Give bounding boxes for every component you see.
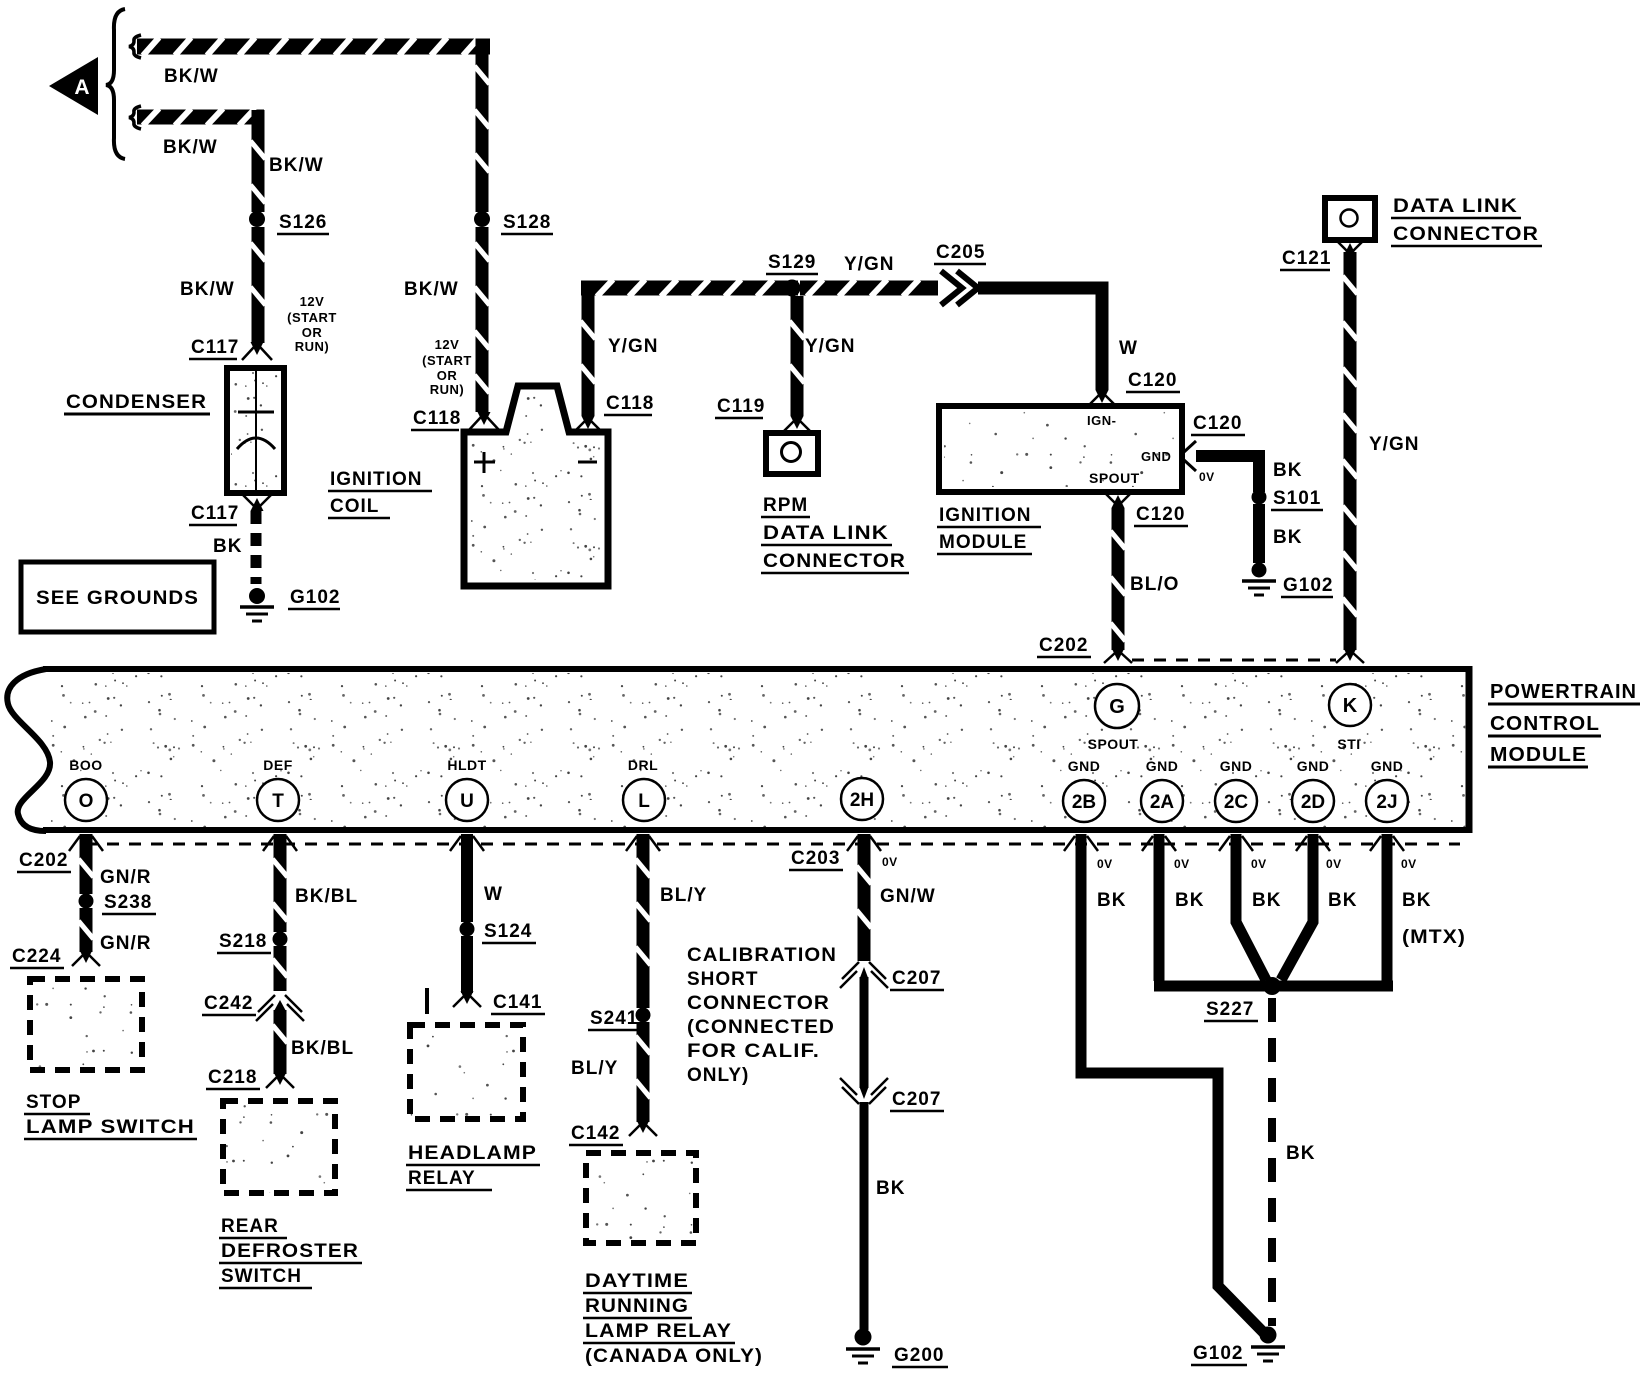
- svg-text:ONLY): ONLY): [687, 1065, 749, 1086]
- connector chevron at PCM pin 2D exit: [1296, 836, 1330, 851]
- connector C121: [1280, 240, 1364, 270]
- wire BL/Y pin L to S241: [636, 834, 708, 1008]
- powertrain control module (PCM) band: [7, 666, 1640, 833]
- svg-text:SEE GROUNDS: SEE GROUNDS: [36, 588, 199, 609]
- connector chevron at PCM pin O exit: [69, 836, 103, 851]
- wire BK dashed S227 to G102: [1272, 998, 1315, 1326]
- connector C224: [10, 946, 100, 968]
- svg-text:DAYTIME: DAYTIME: [585, 1271, 689, 1292]
- svg-text:CALIBRATION: CALIBRATION: [687, 945, 837, 966]
- svg-text:OR: OR: [302, 325, 323, 340]
- svg-text:DEFROSTER: DEFROSTER: [221, 1241, 359, 1262]
- svg-text:IGNITION: IGNITION: [330, 469, 422, 490]
- svg-text:BK/BL: BK/BL: [295, 886, 358, 907]
- svg-text:W: W: [1119, 338, 1138, 359]
- svg-text:BK: BK: [1286, 1143, 1315, 1164]
- svg-text:0V: 0V: [1174, 857, 1190, 871]
- connector C205 (inline arrow): [934, 242, 986, 305]
- svg-text:GN/R: GN/R: [100, 867, 152, 888]
- svg-text:C207: C207: [892, 968, 941, 989]
- svg-text:HLDT: HLDT: [447, 757, 486, 773]
- svg-text:C118: C118: [413, 408, 461, 429]
- connector C207 (upper): [840, 962, 944, 990]
- dashed connector line below PCM (C202/C203): [85, 843, 1460, 846]
- svg-text:GN/W: GN/W: [880, 886, 936, 907]
- stop lamp switch: [24, 979, 197, 1139]
- svg-text:COIL: COIL: [330, 496, 379, 517]
- label 0V BK (2A): [1174, 857, 1204, 911]
- svg-text:STOP: STOP: [26, 1092, 81, 1113]
- wire GN/R pin O to S238: [79, 834, 152, 894]
- svg-text:A: A: [74, 76, 89, 99]
- PCM pin L DRL: [623, 757, 665, 821]
- svg-text:LAMP RELAY: LAMP RELAY: [585, 1321, 732, 1342]
- daytime running lamp relay: [583, 1153, 763, 1367]
- svg-text:DATA LINK: DATA LINK: [1393, 196, 1518, 217]
- svg-text:DEF: DEF: [263, 757, 293, 773]
- svg-text:2C: 2C: [1224, 792, 1249, 813]
- connector C119: [715, 396, 812, 433]
- svg-text:POWERTRAIN: POWERTRAIN: [1490, 681, 1637, 703]
- svg-text:GND: GND: [1068, 758, 1101, 774]
- PCM pin 2H: [841, 778, 883, 820]
- note box SEE GROUNDS: [21, 562, 214, 632]
- svg-text:BK: BK: [213, 536, 242, 557]
- connector chevron at PCM pin 2A exit: [1142, 836, 1176, 851]
- connector chevron at PCM pin 2B exit: [1064, 836, 1098, 851]
- svg-text:(MTX): (MTX): [1402, 927, 1466, 948]
- svg-text:BK/W: BK/W: [163, 137, 218, 158]
- svg-text:GND: GND: [1371, 758, 1404, 774]
- marker arrow A: [49, 57, 98, 115]
- svg-text:C117: C117: [191, 337, 239, 358]
- connector chevron at PCM pin T exit: [263, 836, 297, 851]
- splice S218: [217, 931, 288, 953]
- svg-text:BK: BK: [1273, 527, 1302, 548]
- svg-text:Y/GN: Y/GN: [805, 336, 855, 357]
- svg-text:(CONNECTED: (CONNECTED: [687, 1017, 835, 1038]
- svg-text:S126: S126: [279, 212, 327, 233]
- rear defroster switch: [219, 1101, 362, 1288]
- svg-text:C120: C120: [1193, 413, 1242, 434]
- svg-text:GND: GND: [1141, 449, 1171, 464]
- svg-text:Y/GN: Y/GN: [844, 254, 894, 275]
- svg-text:G: G: [1109, 696, 1125, 718]
- wire BK/BL S218 to C242: [273, 946, 288, 991]
- connector chevron at PCM pin L exit: [626, 836, 660, 851]
- wire GN/R S238 to C224: [79, 908, 152, 954]
- connector chevron at PCM pin 2H exit: [847, 836, 881, 851]
- connector C120 (IGN- pin): [1087, 370, 1180, 407]
- svg-text:(CANADA ONLY): (CANADA ONLY): [585, 1346, 763, 1367]
- svg-text:W: W: [484, 884, 503, 905]
- svg-text:C205: C205: [936, 242, 985, 263]
- svg-text:BL/O: BL/O: [1130, 574, 1179, 595]
- ignition module U1: [937, 406, 1182, 554]
- svg-text:O: O: [79, 791, 94, 812]
- connector C120 (GND pin): [1184, 413, 1245, 484]
- svg-text:S218: S218: [219, 931, 267, 952]
- wire BK ground bus at S227: [1154, 981, 1393, 992]
- svg-text:BK/W: BK/W: [404, 279, 459, 300]
- wire BK pin 2C to S227: [1236, 834, 1266, 980]
- connector chevron at PCM pin U exit: [450, 836, 484, 851]
- svg-text:BK: BK: [1097, 890, 1126, 911]
- wire BK/BL C242 to C218: [273, 1010, 355, 1074]
- svg-text:BK: BK: [876, 1178, 905, 1199]
- svg-text:C117: C117: [191, 503, 239, 524]
- connector C118 (coil negative): [573, 393, 654, 433]
- svg-text:S129: S129: [768, 252, 816, 273]
- svg-text:SPOUT: SPOUT: [1089, 470, 1140, 486]
- splice S129: [766, 252, 818, 297]
- label 0V BK (2D): [1326, 857, 1357, 911]
- connector C117 (condenser bottom): [189, 494, 272, 525]
- wire BK dashed to G102: [213, 511, 256, 584]
- svg-text:0V: 0V: [1251, 857, 1267, 871]
- svg-text:BOO: BOO: [69, 757, 102, 773]
- svg-text:2D: 2D: [1301, 792, 1325, 813]
- label Y/GN: [608, 336, 658, 357]
- wire BK pin 2B to G102: [1081, 834, 1264, 1333]
- svg-text:BK: BK: [1328, 890, 1357, 911]
- PCM pin 2D GND: [1292, 758, 1334, 822]
- svg-text:CONNECTOR: CONNECTOR: [687, 993, 830, 1014]
- wire BK/W S126 to C117: [180, 227, 266, 343]
- svg-text:RUN): RUN): [430, 382, 465, 397]
- svg-text:0V: 0V: [1097, 857, 1113, 871]
- wire BL/O SPOUT to C202: [1111, 508, 1180, 650]
- svg-text:GND: GND: [1146, 758, 1179, 774]
- svg-text:SHORT: SHORT: [687, 969, 759, 990]
- svg-text:GND: GND: [1220, 758, 1253, 774]
- PCM pin T DEF: [257, 757, 299, 821]
- wire W pin U to S124: [461, 834, 503, 922]
- PCM pin 2J GND: [1366, 758, 1408, 822]
- wire BK pin 2J to S227 bus: [1382, 834, 1393, 981]
- svg-text:RUNNING: RUNNING: [585, 1296, 689, 1317]
- svg-text:C142: C142: [571, 1123, 620, 1144]
- label 12V (START OR RUN) right: [422, 337, 472, 397]
- PCM pin 2A GND: [1141, 758, 1183, 822]
- wire BK/W (feed to S126 / condenser): [137, 109, 266, 213]
- headlamp relay: [406, 1025, 540, 1190]
- splice S126: [249, 211, 329, 234]
- splice S101: [1252, 488, 1324, 510]
- svg-text:BK: BK: [1273, 460, 1302, 481]
- connector C121 chevron into PCM: [1336, 648, 1364, 663]
- connector C118 (coil positive): [411, 408, 499, 430]
- svg-text:OR: OR: [437, 368, 458, 383]
- connector C207 (lower): [840, 1078, 944, 1111]
- svg-text:2J: 2J: [1376, 792, 1397, 813]
- svg-text:Y/GN: Y/GN: [608, 336, 658, 357]
- svg-text:C203: C203: [791, 848, 840, 869]
- svg-text:(START: (START: [287, 310, 337, 325]
- svg-text:FOR CALIF.: FOR CALIF.: [687, 1041, 820, 1062]
- svg-text:BK/W: BK/W: [164, 66, 219, 87]
- PCM pin 2B GND: [1063, 758, 1105, 822]
- svg-text:S238: S238: [104, 892, 152, 913]
- svg-text:CONNECTOR: CONNECTOR: [763, 551, 906, 572]
- splice S241: [588, 1008, 651, 1031]
- label 12V (START OR RUN) left: [287, 294, 337, 354]
- svg-text:S128: S128: [503, 212, 551, 233]
- RPM data link connector: [761, 433, 909, 573]
- svg-text:G102: G102: [290, 587, 340, 608]
- wire BK pin 2A to S227 bus: [1154, 834, 1165, 981]
- svg-text:MODULE: MODULE: [1490, 744, 1587, 766]
- connector C142: [569, 1120, 657, 1145]
- svg-text:BK/BL: BK/BL: [291, 1038, 354, 1059]
- wire W C205 to ignition module: [978, 288, 1138, 390]
- svg-text:RUN): RUN): [295, 339, 330, 354]
- svg-text:RELAY: RELAY: [408, 1168, 476, 1189]
- connector chevron at PCM pin 2J exit: [1370, 836, 1404, 851]
- wire BK/W S128 to C118: [404, 227, 490, 412]
- capacitor condenser: [64, 368, 284, 493]
- splice S128: [474, 211, 553, 234]
- svg-text:0V: 0V: [1326, 857, 1342, 871]
- svg-text:CONDENSER: CONDENSER: [66, 392, 207, 413]
- ground G102 (condenser): [240, 587, 340, 621]
- wire calibration short connector segment: [860, 977, 869, 1088]
- PCM pin K STI: [1329, 684, 1371, 752]
- svg-text:U: U: [460, 791, 474, 812]
- connector C242 (inline): [202, 993, 304, 1021]
- connector C117 (condenser top): [189, 337, 272, 360]
- svg-text:LAMP SWITCH: LAMP SWITCH: [26, 1117, 195, 1138]
- label 0V (2H): [882, 855, 898, 869]
- wire Y/GN S129 down to C119: [790, 296, 856, 416]
- svg-text:IGN-: IGN-: [1087, 413, 1116, 428]
- svg-text:2A: 2A: [1150, 792, 1175, 813]
- svg-text:C121: C121: [1282, 248, 1331, 269]
- svg-text:12V: 12V: [435, 337, 460, 352]
- connector C120 (SPOUT pin): [1104, 492, 1188, 526]
- svg-text:BK/W: BK/W: [180, 279, 235, 300]
- svg-text:K: K: [1343, 695, 1358, 717]
- svg-text:STI: STI: [1337, 736, 1360, 752]
- ignition coil: [328, 386, 608, 586]
- svg-text:L: L: [638, 791, 650, 812]
- svg-text:S227: S227: [1206, 999, 1254, 1020]
- svg-text:(START: (START: [422, 353, 472, 368]
- ground G200: [846, 1329, 948, 1368]
- svg-text:S124: S124: [484, 921, 532, 942]
- wire BK C207 to G200: [860, 1102, 906, 1330]
- svg-text:RPM: RPM: [763, 495, 808, 516]
- label 0V BK (2B): [1097, 857, 1126, 911]
- label C202 (left): [17, 850, 71, 872]
- svg-text:2H: 2H: [850, 790, 874, 811]
- svg-text:G102: G102: [1193, 1343, 1243, 1364]
- svg-text:BK/W: BK/W: [269, 155, 324, 176]
- svg-text:C202: C202: [19, 850, 68, 871]
- label BK/W: [164, 66, 219, 87]
- svg-text:IGNITION: IGNITION: [939, 505, 1031, 526]
- svg-text:REAR: REAR: [221, 1216, 279, 1237]
- wire Y/GN coil to S129: [581, 280, 799, 417]
- svg-text:G102: G102: [1283, 575, 1333, 596]
- connector C202 (BL/O into PCM): [1037, 635, 1132, 663]
- svg-text:G200: G200: [894, 1345, 944, 1366]
- svg-text:0V: 0V: [882, 855, 898, 869]
- svg-text:SPOUT: SPOUT: [1088, 736, 1139, 752]
- connector C218: [206, 1067, 294, 1089]
- wire GN/W pin 2H to C207: [857, 834, 936, 961]
- svg-text:BL/Y: BL/Y: [660, 885, 707, 906]
- wire BK/W (top feed to S128 / ignition coil): [137, 38, 490, 213]
- svg-text:C118: C118: [606, 393, 654, 414]
- svg-text:BK: BK: [1252, 890, 1281, 911]
- svg-text:BK: BK: [1402, 890, 1431, 911]
- label BK/W: [163, 137, 218, 158]
- svg-text:C202: C202: [1039, 635, 1088, 656]
- connector C141: [427, 988, 545, 1014]
- wire BK/BL pin T to S218: [273, 834, 359, 932]
- svg-text:DRL: DRL: [628, 757, 658, 773]
- svg-text:BL/Y: BL/Y: [571, 1058, 618, 1079]
- svg-text:0V: 0V: [1401, 857, 1417, 871]
- svg-text:C218: C218: [208, 1067, 257, 1088]
- svg-text:CONTROL: CONTROL: [1490, 713, 1600, 735]
- svg-text:MODULE: MODULE: [939, 532, 1027, 553]
- wire BL/Y S241 to C142: [571, 1022, 651, 1122]
- svg-text:C207: C207: [892, 1089, 941, 1110]
- hook at wire BK/W top: [129, 35, 141, 58]
- svg-text:2B: 2B: [1072, 792, 1096, 813]
- PCM pin 2C GND: [1215, 758, 1257, 822]
- wire Y/GN S129 to C205: [800, 254, 948, 297]
- svg-text:C242: C242: [204, 993, 253, 1014]
- label C203: [789, 848, 843, 870]
- svg-text:SWITCH: SWITCH: [221, 1266, 302, 1287]
- PCM pin G SPOUT: [1088, 684, 1139, 752]
- svg-text:C120: C120: [1128, 370, 1177, 391]
- svg-text:C120: C120: [1136, 504, 1185, 525]
- svg-text:S241: S241: [590, 1008, 638, 1029]
- svg-text:C141: C141: [493, 992, 542, 1013]
- ground G102 (bottom right): [1191, 1327, 1285, 1366]
- wire Y/GN C121 to PCM: [1343, 252, 1420, 650]
- svg-text:DATA LINK: DATA LINK: [763, 523, 889, 544]
- splice S227: [1204, 977, 1281, 1021]
- svg-text:T: T: [272, 791, 284, 812]
- svg-text:GN/R: GN/R: [100, 933, 152, 954]
- wire BK pin 2D to S227: [1281, 834, 1313, 980]
- label 0V BK (2C): [1251, 857, 1281, 911]
- label 0V BK (MTX) (2J): [1401, 857, 1466, 948]
- PCM pin U HLDT: [446, 757, 488, 821]
- wire BK GND pin to S101: [1196, 456, 1302, 492]
- splice S238: [79, 892, 157, 914]
- data link connector: [1325, 196, 1542, 246]
- ground G102 (ignition module): [1242, 563, 1333, 598]
- svg-text:0V: 0V: [1199, 470, 1215, 484]
- svg-text:12V: 12V: [300, 294, 325, 309]
- svg-text:Y/GN: Y/GN: [1369, 434, 1419, 455]
- connector chevron at PCM pin 2C exit: [1219, 836, 1253, 851]
- svg-text:HEADLAMP: HEADLAMP: [408, 1143, 537, 1164]
- hook at wire BK/W lower: [129, 106, 141, 129]
- label BK/W: [269, 155, 324, 176]
- svg-text:GND: GND: [1297, 758, 1330, 774]
- note calibration short connector: [687, 945, 837, 1086]
- PCM pin O BOO: [65, 757, 107, 821]
- svg-text:S101: S101: [1273, 488, 1321, 509]
- svg-text:BK: BK: [1175, 890, 1204, 911]
- svg-text:C224: C224: [12, 946, 61, 967]
- splice S124: [460, 921, 537, 943]
- brace: [106, 9, 125, 159]
- wire W S124 to C141: [461, 936, 473, 993]
- svg-text:CONNECTOR: CONNECTOR: [1393, 224, 1539, 245]
- dashed connector line above PCM: [1132, 659, 1336, 662]
- wire BK S101 to G102: [1253, 504, 1302, 563]
- svg-text:C119: C119: [717, 396, 765, 417]
